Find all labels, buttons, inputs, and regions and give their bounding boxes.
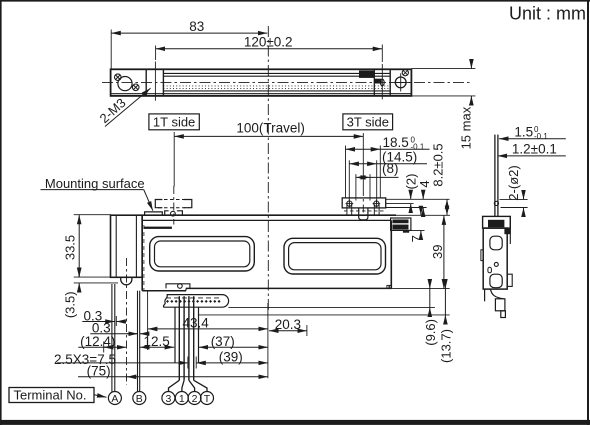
ext body left edge down (147, 291, 149, 350)
top view body outline (111, 69, 412, 96)
svg-text:(13.7): (13.7) (438, 329, 453, 363)
svg-text:7: 7 (409, 235, 424, 242)
dim 13.7 (444, 289, 446, 315)
pin B lines (137, 291, 139, 392)
side bottom tab (495, 299, 505, 311)
knob bottom tab with semicircle (121, 277, 132, 285)
dim 4 (422, 193, 424, 200)
svg-text:33.5: 33.5 (62, 235, 77, 260)
top view centerline (102, 82, 470, 84)
svg-text:83: 83 (189, 19, 204, 34)
phantom bracket right corner mark (184, 200, 192, 208)
dim 33.5 ext top (74, 214, 111, 216)
window 1 inner (155, 241, 250, 267)
svg-text:43.4: 43.4 (182, 316, 209, 331)
pin 3 (178, 296, 180, 380)
pin bracket left (174, 307, 176, 363)
dim 3.5 arrows (78, 270, 80, 277)
wiper block front (391, 218, 411, 230)
body right foot squares (387, 285, 389, 288)
svg-text:A: A (111, 393, 118, 405)
svg-text:B: B (136, 393, 143, 405)
platform with circle (166, 284, 190, 289)
ext line y199 (386, 198, 450, 200)
pin T flare (194, 380, 207, 391)
main vertical centerline (267, 26, 269, 310)
1T side box (149, 114, 199, 130)
dim 39 (443, 215, 445, 288)
knob end block (111, 215, 143, 277)
dim 8.2 (446, 199, 448, 215)
svg-text:2-(ø2): 2-(ø2) (506, 165, 521, 200)
top view inner bottom line (111, 93, 412, 95)
side left fin (481, 250, 483, 261)
right ear screw circle (402, 70, 408, 76)
terminal no box (9, 388, 94, 403)
svg-text:(12.4): (12.4) (80, 334, 115, 349)
dim 15max extension top (411, 68, 475, 70)
svg-text:T: T (204, 393, 211, 405)
wiper block dark (359, 71, 374, 78)
side slot lower (490, 274, 502, 288)
svg-text:39: 39 (430, 245, 445, 259)
dim 1.5 (499, 138, 566, 140)
track line lower (163, 90, 390, 92)
dim 9.6 (429, 289, 431, 308)
ext body bottom right (391, 288, 449, 290)
right bracket hole left (347, 201, 352, 206)
phantom lever bracket dashed box (158, 199, 189, 201)
SEC-FRONT (41, 143, 454, 391)
svg-text:2: 2 (192, 393, 198, 405)
right boss left edge (373, 69, 375, 96)
terminal strip outline (163, 295, 228, 308)
SEC-TOPDIMS (111, 19, 475, 310)
pin 2 (188, 296, 190, 380)
left ear separator (145, 69, 147, 96)
mounting surface thick strip (144, 227, 172, 229)
body bottom line left (142, 290, 186, 292)
svg-text:12.5: 12.5 (143, 334, 169, 349)
blade hole 2mm (494, 201, 498, 205)
terminal strip diamonds (166, 300, 221, 303)
body second line (142, 219, 391, 221)
frame top border (0, 0, 590, 2)
svg-text:Unit : mm: Unit : mm (509, 3, 586, 23)
pin T (193, 296, 195, 380)
right bracket hanging tab (359, 208, 368, 220)
terminal circle 1 (175, 392, 188, 405)
dim 15max extension bottom (411, 95, 475, 97)
side body (483, 228, 507, 289)
dim 100 travel extension right (362, 133, 364, 188)
right bracket leg extensions to mounting surface (346, 204, 348, 216)
svg-text:(3.5): (3.5) (62, 291, 77, 318)
svg-text:1.2±0.1: 1.2±0.1 (512, 142, 557, 157)
pin bracket right (198, 307, 200, 363)
dim 8 line (356, 176, 370, 178)
svg-text:(8): (8) (382, 161, 399, 176)
left ear screw circle 2 (132, 84, 139, 91)
dim 1.2 (498, 155, 566, 157)
dim 33.5 line (78, 215, 80, 277)
track dotted row 1 (163, 85, 390, 87)
right bracket hole right (374, 201, 379, 206)
svg-text:100(Travel): 100(Travel) (236, 121, 305, 136)
svg-text:8.2±0.5: 8.2±0.5 (430, 143, 445, 186)
side bottom foot (501, 311, 506, 318)
track line upper2 (163, 75, 390, 77)
dim 100 travel line (174, 135, 363, 137)
raised tab on top (145, 212, 163, 215)
SEC-SIDE (481, 124, 566, 317)
dim 100 travel extension left (173, 132, 175, 187)
body bottom line right (186, 287, 391, 289)
ext center vertical bottom (267, 303, 269, 378)
svg-text:(9.6): (9.6) (423, 319, 438, 346)
frame bottom bar (0, 420, 590, 425)
side bottom pin bend (491, 289, 504, 299)
svg-text:Terminal No.: Terminal No. (14, 387, 87, 402)
right ear separator (389, 69, 391, 96)
dim 2-o2 arrows (523, 191, 525, 200)
dim 7 (420, 208, 422, 216)
svg-text:3T side: 3T side (347, 114, 389, 129)
ext line y207 (386, 207, 427, 209)
ext wiper bottom (409, 230, 424, 232)
right boss hole lens (380, 79, 384, 86)
svg-text:20.3: 20.3 (275, 317, 301, 332)
SEC-BOTTOMDIMS (9, 291, 307, 405)
left boss right edge (162, 69, 164, 96)
SEC-TOPVIEW (97, 62, 470, 127)
terminal circle B (133, 392, 146, 405)
mounting surface leader (144, 190, 153, 211)
svg-text:1.5: 1.5 (514, 124, 533, 139)
dim 120 extension left (155, 46, 157, 61)
dim 18.5 line (346, 148, 381, 150)
svg-text:18.5: 18.5 (383, 135, 409, 150)
pin 2 flare (189, 380, 195, 391)
track dotted row 2 (163, 87, 390, 89)
svg-text:(75): (75) (87, 363, 111, 378)
side bottom left leg (484, 289, 486, 301)
right bracket dashed lower (344, 210, 384, 212)
phantom bracket left corner mark (155, 200, 162, 208)
dim 2-o2 ext ticks (500, 198, 528, 200)
pin A lines (111, 284, 113, 392)
frame right border (587, 0, 589, 425)
svg-text:Mounting surface: Mounting surface (45, 176, 145, 191)
ext strip bottom right (228, 306, 435, 308)
dim (2) (410, 193, 412, 200)
terminal strip dashed line (166, 297, 222, 299)
window 1 outer (150, 237, 255, 271)
track line upper1 (163, 72, 390, 74)
pin 3 flare (169, 380, 180, 391)
left ear screw circle 1 (115, 74, 122, 81)
left boss hole centerline (154, 62, 156, 101)
side bracket (483, 216, 511, 228)
body top surface line (142, 214, 396, 216)
body left edge (141, 215, 143, 291)
side slot upper (490, 236, 502, 250)
terminal circle 3 (162, 392, 175, 405)
ext mounting surface right (396, 214, 450, 216)
3T side box (343, 114, 393, 130)
body bottom step (185, 288, 187, 290)
svg-text:3: 3 (165, 393, 171, 405)
svg-text:15 max.: 15 max. (459, 103, 474, 149)
terminal circle T (201, 392, 214, 405)
ext line y203 (386, 203, 414, 205)
dim 33.5 ext bottom (74, 276, 116, 278)
dim 18.5 extension lines (345, 146, 347, 198)
left ear big circle (118, 77, 132, 91)
pin 1 (183, 296, 185, 380)
body hidden left dashed (143, 225, 145, 290)
body right edge (390, 220, 392, 288)
frame left border (0, 0, 2, 425)
dim 120 extension right (381, 45, 383, 63)
terminal circle A (108, 392, 121, 405)
svg-text:1: 1 (179, 393, 185, 405)
svg-text:(39): (39) (219, 350, 243, 365)
ext pins bottom right (199, 314, 450, 316)
svg-text:1T side: 1T side (153, 114, 195, 129)
side small notch (488, 267, 492, 273)
right bracket bar (342, 198, 386, 208)
window 2 outer (284, 238, 386, 274)
side right fin (507, 274, 512, 286)
pin 1 flare (182, 380, 184, 391)
dim 15max arrows (470, 61, 472, 69)
right ear crosshair circle (395, 77, 406, 88)
window 2 inner (289, 243, 381, 270)
terminal A centerline (126, 258, 128, 385)
dim 14.5 line (349, 163, 376, 165)
dim 120 line (156, 48, 383, 50)
terminal no leader (94, 395, 107, 398)
lever stub at 1T (165, 211, 183, 215)
svg-text:-0.1: -0.1 (534, 132, 548, 141)
2-M3 leader (105, 88, 151, 126)
ext 0.3 right (115, 316, 117, 326)
side lever blade (494, 135, 496, 217)
terminal circle 2 (188, 392, 201, 405)
side right outer line (509, 216, 511, 244)
dim 3.5 ext bottom (74, 282, 118, 284)
svg-text:(37): (37) (211, 334, 235, 349)
side circle (494, 262, 498, 266)
lever centerline 1T (173, 186, 175, 225)
ext 20.3 right (306, 325, 308, 336)
dim 83 line (111, 32, 267, 34)
right bracket centerline (362, 188, 364, 213)
dim 83 extension left (110, 30, 112, 69)
